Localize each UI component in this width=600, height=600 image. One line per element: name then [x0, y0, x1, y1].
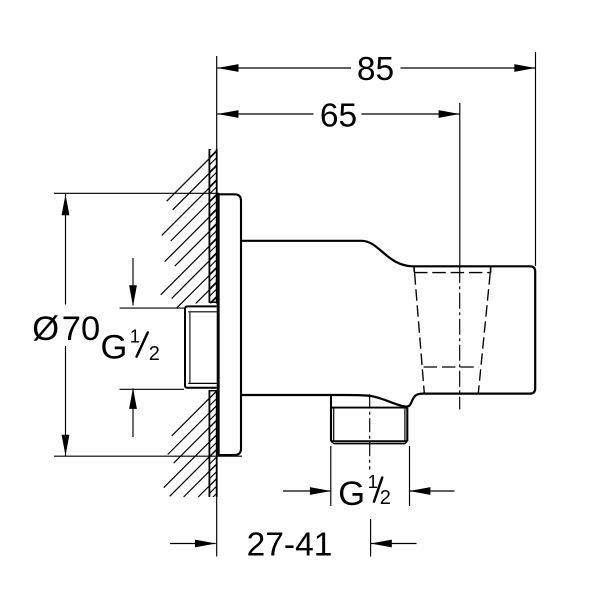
svg-text:65: 65 — [320, 97, 357, 134]
svg-text:2: 2 — [380, 487, 391, 509]
svg-text:1: 1 — [130, 326, 140, 347]
svg-text:85: 85 — [357, 51, 394, 88]
svg-text:2: 2 — [149, 343, 160, 365]
svg-text:G: G — [338, 475, 365, 513]
svg-text:1: 1 — [368, 471, 378, 492]
svg-text:70: 70 — [62, 310, 100, 348]
svg-text:27-41: 27-41 — [247, 526, 333, 563]
svg-text:G: G — [101, 328, 128, 366]
svg-text:Ø: Ø — [32, 310, 59, 348]
